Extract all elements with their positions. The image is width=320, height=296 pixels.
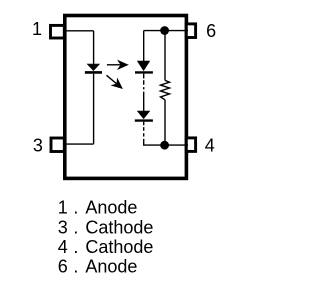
svg-text:.: .: [73, 198, 78, 218]
dashed wire below D3: [143, 122, 145, 145]
svg-text:3: 3: [58, 217, 68, 237]
svg-text:4: 4: [58, 237, 68, 257]
svg-text:1: 1: [58, 198, 68, 218]
legend line 6 Anode: [58, 257, 138, 277]
svg-text:.: .: [73, 237, 78, 257]
wire top node to pin6: [144, 30, 188, 32]
LED D1: [85, 64, 102, 72]
legend line 4 Cathode: [58, 237, 154, 257]
pin label 4: [205, 135, 215, 155]
pin label 6: [206, 21, 216, 41]
pin 6 lead: [186, 24, 195, 38]
wire resistor bottom: [164, 100, 166, 145]
wire resistor top: [164, 31, 166, 81]
light arrow upper: [107, 60, 129, 70]
dashed wire between D2 and D3: [143, 74, 145, 112]
wire LED anode vertical: [93, 31, 95, 65]
pin label 1: [32, 19, 42, 39]
svg-text:4: 4: [205, 135, 215, 155]
svg-text:3: 3: [33, 135, 43, 155]
pin label 3: [33, 135, 43, 155]
svg-text:Cathode: Cathode: [85, 217, 153, 237]
wire bottom node to pin4: [143, 144, 188, 146]
pin 4 lead: [186, 138, 195, 152]
svg-text:6: 6: [58, 257, 68, 277]
light arrow lower: [107, 75, 127, 93]
svg-text:6: 6: [206, 21, 216, 41]
pin 1 lead: [51, 25, 65, 38]
resistor R1: [161, 80, 170, 99]
wire photodiode branch top: [143, 31, 145, 62]
node junction dot bottom: [160, 141, 169, 150]
svg-text:.: .: [73, 217, 78, 237]
photodiode D3: [135, 111, 153, 121]
legend line 1 Anode: [58, 198, 138, 218]
wire LED cathode vertical: [93, 74, 95, 144]
legend line 3 Cathode: [58, 217, 154, 237]
svg-text:Cathode: Cathode: [85, 237, 153, 257]
wire LED cathode to pin3: [64, 143, 94, 145]
svg-text:.: .: [73, 257, 78, 277]
node junction dot top: [160, 26, 169, 35]
svg-text:1: 1: [32, 19, 42, 39]
photodiode D2: [135, 61, 153, 72]
wire pin1 to LED anode: [64, 30, 94, 32]
pin 3 lead: [51, 138, 64, 152]
svg-text:Anode: Anode: [85, 257, 137, 277]
package outline U1: [65, 16, 187, 179]
svg-text:Anode: Anode: [85, 198, 137, 218]
